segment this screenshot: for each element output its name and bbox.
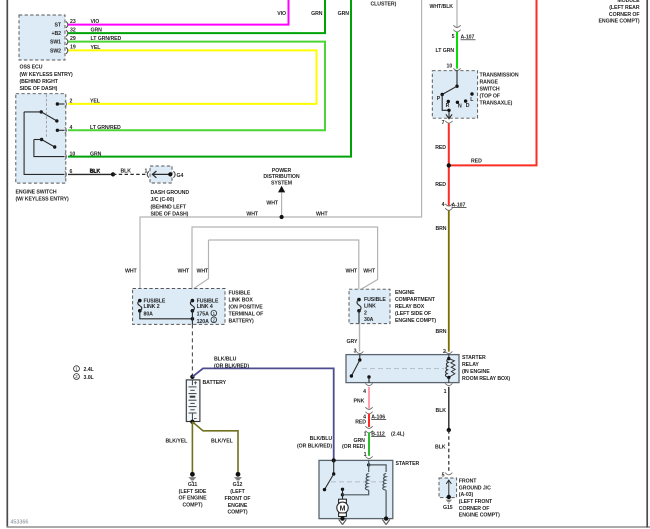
switch arm 2: [40, 138, 43, 141]
svg-text:SYSTEM: SYSTEM: [271, 181, 292, 187]
engine switch pin 2 connector: [65, 101, 67, 107]
svg-text:WHT: WHT: [363, 269, 376, 275]
svg-text:(ON POSITIVE: (ON POSITIVE: [229, 305, 264, 311]
svg-text:OSS ECU: OSS ECU: [20, 65, 43, 71]
connector B-112 pin 1: [365, 426, 372, 428]
wire PNK: [368, 387, 370, 409]
svg-text:RED: RED: [435, 145, 446, 151]
footnote legend: [74, 366, 80, 372]
junction on WHT bus: [280, 215, 284, 219]
svg-text:(TOP OF: (TOP OF: [480, 94, 500, 100]
svg-text:WHT: WHT: [178, 269, 191, 275]
connector A-106 pin 4: [365, 407, 372, 409]
svg-text:FRONT: FRONT: [459, 479, 477, 485]
ground arrow inside dash ground J/C: [152, 171, 170, 178]
svg-text:120A: 120A: [197, 319, 209, 325]
svg-text:(LEFT SIDE OF: (LEFT SIDE OF: [395, 311, 431, 317]
svg-text:SW1: SW1: [50, 40, 61, 46]
ground G11: [188, 472, 196, 483]
front ground J/C (A-03) box: [439, 478, 457, 498]
svg-text:TERMINAL OF: TERMINAL OF: [229, 312, 264, 318]
svg-text:453366: 453366: [10, 519, 28, 525]
svg-text:BRN: BRN: [435, 226, 446, 232]
svg-text:2: 2: [70, 99, 73, 105]
svg-text:ENGINE: ENGINE: [395, 290, 415, 296]
svg-text:BLK: BLK: [90, 169, 101, 175]
border frame right: [646, 0, 648, 528]
svg-text:LINK 2: LINK 2: [144, 304, 160, 310]
svg-text:GRN: GRN: [90, 151, 102, 157]
svg-text:(OR BLK/RED): (OR BLK/RED): [297, 444, 332, 450]
footnote marker 2: [211, 317, 217, 323]
wire GRN from OSS ECU pin 32 to cluster: [68, 0, 325, 33]
svg-text:4: 4: [363, 389, 366, 395]
svg-text:PNK: PNK: [354, 398, 365, 404]
svg-text:ENGINE COMPT): ENGINE COMPT): [459, 513, 500, 519]
svg-text:WHT/BLK: WHT/BLK: [430, 4, 454, 10]
svg-text:1: 1: [444, 389, 447, 395]
svg-text:+: +: [194, 381, 198, 387]
svg-text:(A-03): (A-03): [459, 492, 474, 498]
svg-text:D: D: [466, 103, 470, 109]
wire WHT nested loop 2: [209, 240, 359, 300]
svg-text:10: 10: [447, 63, 453, 69]
svg-text:RED: RED: [435, 182, 446, 188]
connector A-107 pin 4: [445, 204, 452, 206]
svg-text:LINK 4: LINK 4: [197, 304, 213, 310]
svg-text:WHT: WHT: [266, 201, 279, 207]
svg-text:(BEHIND LEFT: (BEHIND LEFT: [151, 204, 187, 210]
OSS ECU pin 23 connector: [66, 22, 68, 28]
splice node: [111, 172, 115, 176]
battery: [186, 380, 200, 422]
main stem to pin 6: [24, 112, 64, 174]
relay mechanical link dashed: [362, 368, 444, 370]
svg-text:29: 29: [70, 36, 76, 42]
fusible link 2: [138, 299, 193, 319]
svg-text:23: 23: [70, 19, 76, 25]
svg-text:GRY: GRY: [347, 339, 358, 345]
footnote marker 1: [211, 310, 217, 316]
svg-text:LINK: LINK: [364, 304, 376, 310]
wire BLK/YEL to G12: [192, 422, 238, 473]
wire RED from TRS pin 7: [448, 124, 450, 207]
engine switch pin 6 connector: [65, 171, 67, 177]
wire RED from module: [448, 0, 537, 165]
svg-text:M: M: [340, 505, 346, 512]
wire RED: [368, 414, 370, 428]
svg-text:G4: G4: [177, 173, 184, 179]
svg-text:RELAY: RELAY: [462, 362, 479, 368]
OSS ECU pin 32 connector: [66, 30, 68, 36]
svg-text:BATTERY): BATTERY): [229, 319, 254, 325]
svg-text:GRN: GRN: [338, 11, 350, 17]
wire BLK from engine switch pin 6: [68, 173, 113, 175]
border frame bottom: [7, 526, 650, 528]
engine switch pin 10 connector: [65, 154, 67, 160]
svg-text:7: 7: [442, 120, 445, 126]
dashed battery feed wire: [191, 324, 193, 376]
svg-text:TRANSMISSION: TRANSMISSION: [480, 73, 519, 79]
svg-text:GRN: GRN: [311, 11, 323, 17]
svg-text:DASH GROUND: DASH GROUND: [151, 190, 190, 196]
wire WHT/BLK from module: [456, 0, 458, 28]
svg-text:RED: RED: [471, 159, 482, 165]
svg-text:2.4L: 2.4L: [84, 367, 95, 373]
wire BLK dashed to dash ground J/C: [113, 173, 147, 175]
svg-text:FRONT OF: FRONT OF: [224, 496, 250, 502]
svg-text:(IN ENGINE: (IN ENGINE: [462, 369, 490, 375]
svg-text:+B2: +B2: [52, 31, 62, 37]
svg-text:LINK BOX: LINK BOX: [229, 298, 254, 304]
svg-text:BLK/BLU: BLK/BLU: [310, 436, 333, 442]
relay coil: [445, 355, 455, 383]
svg-text:ENGINE COMPT): ENGINE COMPT): [395, 318, 436, 324]
svg-text:BLK/YEL: BLK/YEL: [166, 439, 189, 445]
battery terminal nodes: [190, 375, 194, 379]
engine switch internal contacts and arms: [24, 102, 64, 174]
svg-text:CORNER OF: CORNER OF: [459, 506, 490, 512]
svg-text:MODULE: MODULE: [617, 0, 640, 4]
svg-text:(OR RED): (OR RED): [342, 444, 365, 450]
svg-text:ROOM RELAY BOX): ROOM RELAY BOX): [462, 376, 510, 382]
svg-text:ENGINE SWITCH: ENGINE SWITCH: [16, 189, 57, 195]
svg-text:10: 10: [70, 151, 76, 157]
svg-text:SIDE OF DASH): SIDE OF DASH): [20, 86, 58, 92]
svg-text:DISTRIBUTION: DISTRIBUTION: [263, 174, 299, 180]
svg-text:N: N: [458, 104, 462, 110]
svg-text:(LEFT: (LEFT: [230, 489, 245, 495]
starter ground left: [340, 516, 344, 520]
svg-text:30A: 30A: [364, 317, 374, 323]
svg-text:(W/ KEYLESS ENTRY): (W/ KEYLESS ENTRY): [16, 197, 70, 203]
svg-text:SWITCH: SWITCH: [480, 87, 500, 93]
svg-text:(BEHIND RIGHT: (BEHIND RIGHT: [20, 79, 59, 85]
svg-text:POWER: POWER: [272, 168, 292, 174]
wire VIO from OSS ECU pin 23 to cluster: [68, 0, 289, 25]
OSS ECU pin 29 connector: [66, 39, 68, 45]
svg-text:ENGINE: ENGINE: [228, 503, 248, 509]
switch arm 1: [40, 110, 43, 113]
svg-text:STARTER: STARTER: [396, 461, 420, 467]
svg-text:P: P: [437, 96, 441, 102]
connector A-107 pin 5: [453, 25, 460, 27]
wire WHT bus: [140, 0, 422, 301]
svg-text:LT GRN/RED: LT GRN/RED: [91, 36, 122, 42]
svg-text:TRANSAXLE): TRANSAXLE): [480, 101, 513, 107]
ground G12: [234, 472, 242, 483]
svg-text:COMPT): COMPT): [227, 510, 247, 516]
mechanical link dashed: [45, 95, 47, 139]
solenoid link dashed: [331, 481, 386, 483]
svg-text:BLK: BLK: [121, 169, 132, 175]
svg-text:BLK: BLK: [435, 444, 446, 450]
svg-text:GRN: GRN: [354, 438, 366, 444]
svg-text:1: 1: [364, 431, 367, 437]
svg-text:G15: G15: [443, 505, 453, 511]
svg-text:19: 19: [70, 45, 76, 51]
arrow at TRS pin 7: [446, 114, 452, 118]
svg-text:OF ENGINE: OF ENGINE: [179, 496, 208, 502]
svg-text:32: 32: [70, 27, 76, 33]
svg-text:SW2: SW2: [50, 48, 61, 54]
svg-text:3.0L: 3.0L: [84, 375, 95, 381]
wire WHT nested loop 1: [192, 227, 378, 301]
svg-text:4: 4: [70, 125, 73, 131]
svg-text:WHT: WHT: [197, 269, 210, 275]
svg-text:J/C (C-00): J/C (C-00): [151, 197, 175, 203]
svg-text:(W/ KEYLESS ENTRY): (W/ KEYLESS ENTRY): [20, 72, 74, 78]
svg-text:80A: 80A: [144, 311, 154, 317]
svg-text:G11: G11: [188, 482, 198, 488]
svg-text:VIO: VIO: [91, 19, 100, 25]
svg-text:LT GRN: LT GRN: [436, 48, 455, 54]
wire LT GRN to TRS: [456, 32, 458, 69]
svg-text:RANGE: RANGE: [480, 80, 499, 86]
wire YEL from OSS ECU pin 19 to engine switch pin 2: [68, 50, 317, 104]
svg-text:(LEFT SIDE: (LEFT SIDE: [179, 489, 207, 495]
svg-text:WHT: WHT: [346, 269, 359, 275]
contact pin2: [56, 102, 59, 105]
svg-text:(2.4L): (2.4L): [391, 431, 405, 437]
svg-text:ST: ST: [54, 23, 61, 29]
svg-text:(LEFT FRONT: (LEFT FRONT: [459, 499, 493, 505]
svg-text:RED: RED: [355, 419, 366, 425]
svg-text:FUSIBLE: FUSIBLE: [229, 291, 251, 297]
svg-text:LT GRN/RED: LT GRN/RED: [90, 125, 121, 131]
svg-text:WHT: WHT: [316, 211, 329, 217]
svg-text:RELAY BOX: RELAY BOX: [395, 304, 425, 310]
svg-text:5: 5: [452, 34, 455, 40]
starter internals: [332, 458, 336, 462]
svg-text:BRN: BRN: [435, 329, 446, 335]
wire BRN to starter relay pin 2: [448, 211, 450, 352]
starter coils: [343, 460, 387, 519]
transmission range switch box: [432, 71, 477, 119]
OSS ECU box: [19, 15, 65, 60]
contact pin4: [56, 129, 59, 132]
fusible link 4: [190, 299, 194, 325]
dash ground J/C (C-00) box: [150, 166, 172, 183]
svg-text:ENGINE COMPT): ENGINE COMPT): [598, 19, 639, 25]
svg-text:BLK: BLK: [436, 408, 447, 414]
svg-text:(LEFT REAR: (LEFT REAR: [609, 5, 640, 11]
OSS ECU pin 19 connector: [66, 47, 68, 53]
svg-text:BATTERY: BATTERY: [203, 380, 227, 386]
svg-text:YEL: YEL: [90, 99, 101, 105]
engine switch box: [16, 94, 66, 183]
wire BLK/YEL to G11: [191, 422, 193, 473]
svg-text:CORNER OF: CORNER OF: [609, 12, 640, 18]
svg-text:G12: G12: [233, 482, 243, 488]
svg-text:WHT: WHT: [246, 211, 259, 217]
svg-text:(OR BLK/RED): (OR BLK/RED): [214, 364, 249, 370]
svg-text:4: 4: [442, 202, 445, 208]
svg-text:GRN: GRN: [91, 28, 103, 34]
wire LT GRN/RED from OSS ECU pin 29 to engine switch pin 4: [68, 42, 325, 131]
svg-text:COMPT): COMPT): [182, 502, 202, 508]
svg-text:VIO: VIO: [277, 11, 286, 17]
starter ground right: [384, 516, 388, 520]
starter relay box: [346, 355, 459, 383]
svg-text:CLUSTER): CLUSTER): [371, 1, 397, 7]
wire GRN (OR RED): [368, 433, 370, 456]
svg-text:2: 2: [364, 310, 367, 316]
starter relay internals: [350, 355, 371, 383]
svg-text:WHT: WHT: [125, 269, 138, 275]
wire GRN from cluster to engine switch pin 10: [68, 0, 351, 157]
svg-text:FUSIBLE: FUSIBLE: [364, 297, 386, 303]
svg-text:STARTER: STARTER: [462, 355, 486, 361]
svg-text:COMPARTMENT: COMPARTMENT: [395, 297, 436, 303]
svg-text:BLK/YEL: BLK/YEL: [211, 439, 234, 445]
svg-text:175A: 175A: [197, 311, 209, 317]
wire GRY to starter relay pin 3: [359, 324, 361, 352]
engine switch pin 4 connector: [65, 127, 67, 133]
svg-text:BLK/BLU: BLK/BLU: [214, 356, 237, 362]
svg-text:YEL: YEL: [91, 45, 102, 51]
svg-text:GROUND J/C: GROUND J/C: [459, 485, 491, 491]
border frame left: [6, 0, 8, 528]
motor M: [337, 499, 348, 518]
svg-text:R: R: [446, 103, 450, 109]
arrow to power distribution system: [278, 186, 285, 193]
